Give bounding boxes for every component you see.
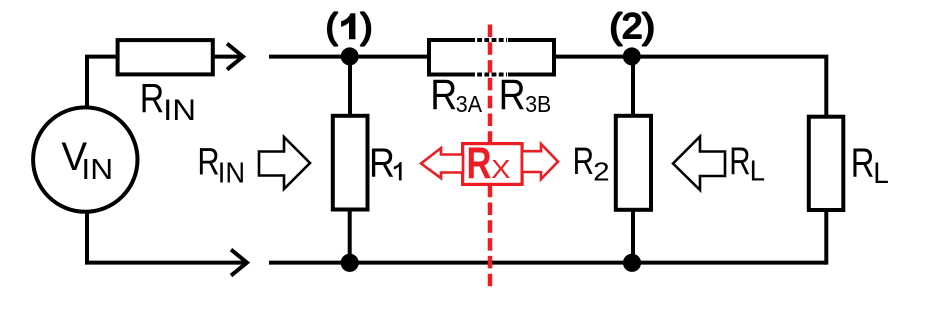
svg-text:R: R [369, 140, 395, 186]
label RX main [467, 139, 492, 188]
wire VIN top to RIN [87, 57, 119, 108]
svg-text:3A: 3A [456, 91, 482, 117]
svg-text:R: R [851, 139, 875, 185]
arrowhead bottom wire [231, 250, 247, 276]
junction dot node 2 [623, 47, 641, 65]
svg-text:(2): (2) [610, 6, 655, 46]
svg-text:R: R [729, 140, 750, 183]
label R3B main [499, 72, 526, 119]
cut line (red dashed) [488, 25, 493, 288]
svg-text:(: ( [326, 7, 338, 46]
label R2 main [573, 141, 594, 184]
wire RIN to arrow [213, 55, 243, 59]
label R3A main [430, 72, 457, 119]
block arrow right (RIN) [259, 137, 310, 189]
svg-text:L: L [873, 157, 889, 190]
svg-text:R: R [197, 142, 219, 184]
junction dot bottom left [341, 254, 359, 272]
label VIN sub [81, 154, 113, 185]
svg-text:L: L [750, 155, 765, 186]
svg-text:X: X [491, 154, 510, 183]
wire node 2 to R2 [631, 57, 635, 119]
junction dot bottom right [623, 254, 641, 272]
svg-text:3B: 3B [525, 91, 551, 117]
red arrow left [421, 148, 463, 178]
label R2 sub [593, 157, 610, 186]
svg-text:IN: IN [163, 93, 196, 126]
svg-text:R: R [573, 141, 594, 184]
wire R2 to bottom [631, 208, 635, 263]
wire to node 1 [269, 55, 427, 59]
red arrow right [522, 144, 558, 179]
label RL mid main [729, 140, 750, 183]
label RX sub [491, 154, 510, 183]
svg-text:2: 2 [593, 157, 610, 186]
junction dot node 1 [341, 47, 359, 65]
label RL right sub [873, 157, 889, 190]
svg-text:IN: IN [81, 154, 113, 185]
resistor RIN [118, 40, 213, 74]
wire RL bottom [824, 208, 828, 265]
resistor RL [809, 117, 844, 210]
resistor R3A R3B split box [429, 40, 554, 75]
resistor R1 [333, 116, 368, 210]
svg-text:R: R [467, 139, 492, 188]
label VIN main [61, 134, 87, 179]
label RIN sub [163, 93, 196, 126]
wire node2 to RL top [633, 57, 826, 119]
measuring box RX [463, 144, 522, 185]
svg-text:IN: IN [218, 157, 245, 189]
resistor R2 [616, 116, 651, 210]
block arrow left (RL) [673, 137, 725, 191]
label R1 main [369, 140, 395, 186]
svg-text:): ) [361, 7, 373, 46]
label RIN main [140, 75, 165, 121]
label RIN2 sub [218, 157, 245, 189]
svg-text:R: R [140, 75, 165, 121]
label R3A sub [456, 91, 482, 117]
svg-text:R: R [430, 72, 457, 119]
label R3B sub [525, 91, 551, 117]
wire R1 to bottom [348, 208, 352, 263]
svg-text:R: R [499, 72, 526, 119]
label RL right main [851, 139, 875, 185]
label RIN2 main [197, 142, 219, 184]
wire bottom main [269, 261, 826, 265]
wire VIN bottom left [87, 210, 245, 263]
label RL mid sub [750, 155, 765, 186]
wire R3B to node 2 [556, 55, 633, 59]
voltage source VIN [33, 107, 137, 211]
label R1 sub [394, 162, 402, 180]
wire node 1 to R1 [348, 57, 352, 119]
node (1) label [326, 7, 372, 46]
arrowhead top wire [227, 44, 243, 70]
node (2) label [610, 6, 655, 46]
